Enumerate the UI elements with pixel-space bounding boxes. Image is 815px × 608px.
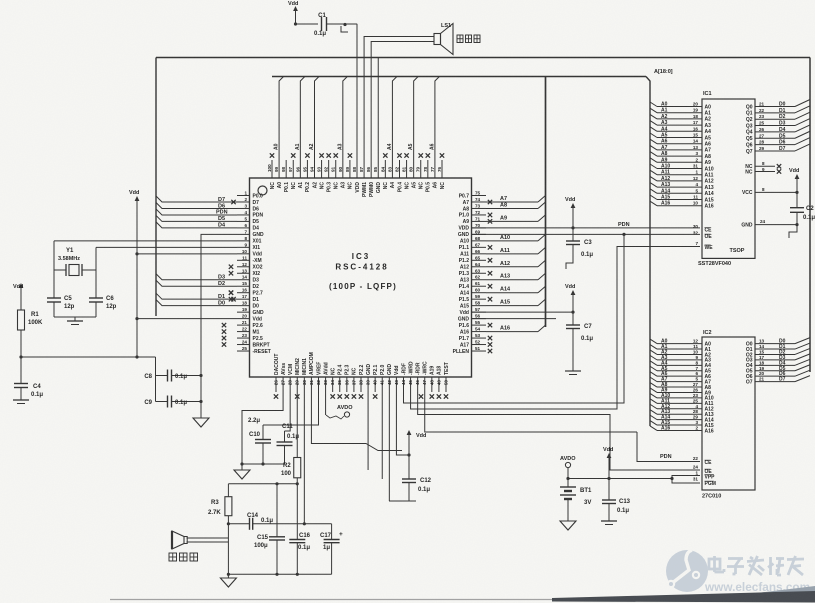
IC1 VCC pin	[742, 187, 799, 196]
wire GND pin56 row stub	[472, 318, 557, 320]
ground below BT1	[560, 521, 576, 530]
IC2 address pins A0-A16 with fan	[650, 339, 714, 435]
wire -RDR pin46 loop to IC2 OE	[418, 392, 700, 470]
resistor R3 2.7K	[208, 484, 232, 526]
wire C1 to VDD pin 88 net	[327, 23, 358, 26]
ground hook below C2	[789, 225, 797, 238]
wire C14 to C17/MICIN1	[253, 523, 332, 525]
capacitor C2 0.1u	[790, 192, 815, 224]
wire address-bus top horizontal A[18:0]	[272, 77, 650, 427]
IC3 bottom no-connect X marks	[274, 394, 448, 398]
wire P2.0 pin41 down	[381, 392, 383, 479]
label PDN (near IC1)	[618, 222, 630, 228]
power Vdd (left rail)	[129, 190, 139, 210]
net symbol AVDD at battery	[560, 456, 576, 468]
IC3 left pins 1-25 with labels	[237, 191, 271, 355]
wire Vdd pin43 to C12 node	[396, 392, 409, 455]
capacitor C11 0.1u	[277, 424, 300, 464]
watermark logo circle	[666, 550, 708, 592]
IC RSC-4128 U/IC3 body	[250, 178, 472, 377]
power Vdd above C3	[565, 197, 575, 228]
wire AMPCOM pin31 down-right jog	[311, 392, 402, 451]
wire Vdd rail to pin10	[137, 253, 237, 255]
X marks on D wires	[229, 200, 236, 302]
scan noise texture	[0, 0, 1, 1]
capacitor C3 0.1u	[566, 228, 593, 258]
wire data-bus right vertical	[809, 58, 811, 373]
power Vdd above C13	[603, 447, 613, 479]
wire -WRC pin47 loop to IC2 CE net	[425, 392, 637, 432]
IC2 VPP pin	[695, 471, 715, 481]
resistor R2 100	[281, 458, 301, 478]
scan shadow bottom edge	[110, 586, 815, 603]
power Vdd (top, to C1)	[288, 1, 298, 24]
wire GND pin85 up	[377, 58, 379, 161]
wire AVdd pin33 to AVDD symbol	[325, 392, 327, 415]
ground bar below C7	[565, 371, 581, 375]
ground bar below C12	[389, 500, 416, 502]
IC2 data pins O0-O7 to data bus	[746, 338, 810, 386]
power Vdd at IC1	[789, 168, 799, 192]
wire Vdd to C1	[294, 22, 318, 25]
wire OE net (IC3 pin69 row to IC1 OE)	[472, 233, 701, 236]
capacitor C14 0.1u	[247, 513, 273, 530]
ground bar below C13	[601, 521, 617, 525]
wire Vdd pin57 row to C7	[472, 311, 575, 314]
resistor R1 100K	[18, 310, 44, 330]
wire GND pin7 down-left	[201, 234, 237, 418]
IC3 name text	[329, 252, 397, 291]
wire MICIN2 pin29 down to R2	[296, 392, 298, 458]
wire PDN branch down to IC2 CE	[637, 432, 700, 462]
IC2 OE pin	[693, 465, 713, 476]
ground (mic, bottom)	[220, 574, 236, 587]
capacitor C5 12p	[47, 270, 75, 317]
wire mic coupling row	[228, 523, 249, 525]
wire mic node rail	[228, 482, 297, 485]
IC2 PGM pin	[693, 477, 716, 488]
capacitor C1 0.1u	[314, 13, 327, 37]
watermark text 电子发烧友 (glyph strokes)	[709, 556, 804, 575]
IC1 CE pin	[693, 224, 712, 234]
wires D7-D0 from data bus to IC3	[156, 196, 237, 306]
wire GND pin39 down	[367, 392, 369, 470]
IC1 address pins A0-A16 with fan	[650, 102, 714, 210]
watermark url text	[704, 580, 810, 594]
IC3 top pins 100-76 with labels	[267, 160, 446, 197]
label speaker 扬声器 (glyph strokes)	[457, 35, 480, 43]
crystal Y1 3.58MHz	[54, 241, 96, 276]
IC3 left no-connect X marks	[222, 265, 233, 347]
wire X01 pin8 to crystal	[54, 240, 237, 242]
wire PWM0 pin86 to speaker	[371, 42, 434, 161]
wire AVss pin27 to ground	[242, 392, 283, 464]
capacitor C15 100u	[254, 484, 285, 575]
speaker LS1	[434, 23, 453, 55]
wire data-bus top horizontal (net D[7:0])	[156, 57, 810, 59]
wire analog ground rail	[240, 462, 284, 465]
capacitor C13 0.1u	[602, 479, 631, 522]
IC2 CE pin	[693, 456, 712, 466]
capacitor C7 0.1u	[566, 312, 593, 371]
wire -WRD pin45 loop to IC1 WE	[411, 247, 700, 410]
ground bar below C4	[13, 400, 29, 404]
wire VREF pin32 to C10	[263, 392, 318, 425]
microphone MIC (传声器)	[172, 531, 187, 549]
IC3 bottom pins 26-50 with labels	[274, 352, 450, 392]
label microphone 传声器 (glyph strokes)	[169, 553, 198, 561]
wire Vdd node to IC2 VPP/PGM	[609, 476, 700, 484]
wire VCM pin28 to C11	[285, 392, 291, 431]
wire VDD pin88 up	[356, 24, 358, 160]
wire AVDD to battery	[566, 468, 569, 481]
IC 27C010 IC2 body	[702, 330, 755, 500]
capacitor C16 0.1u	[289, 484, 310, 575]
wire GND pin42 down	[388, 392, 390, 501]
power Vdd above C7	[565, 284, 575, 312]
wire R1 bottom node	[19, 330, 155, 359]
wire C8/C9 left vertical	[155, 357, 157, 402]
IC3 top no-connect X marks	[270, 153, 444, 157]
capacitor C8 0.1u	[144, 370, 201, 382]
wire battery node to C13/Vdd	[568, 477, 611, 480]
wire PWM1 pin87 to speaker	[364, 37, 434, 161]
wire -RDF pin44 loop to IC1 OE	[403, 234, 624, 403]
wire Vdd rail to pin20	[137, 318, 237, 320]
IC1 OE pin	[693, 230, 713, 240]
ground (analog, below rail)	[234, 464, 250, 479]
wire PDN pin4 from bus	[156, 209, 237, 216]
ground hook below C3	[566, 258, 573, 269]
net symbol AVDD (circle) near pin33	[326, 405, 353, 419]
IC1 GND pin	[741, 219, 798, 229]
capacitor C10 2.2u	[249, 425, 271, 466]
wires A7-A16 from IC3 to address bus	[486, 195, 546, 331]
ground stub right of C1	[341, 26, 348, 32]
capacitor C17 1u (polar)	[320, 524, 343, 575]
IC1 data pins Q0-Q7 to data bus	[746, 100, 810, 155]
label PDN (near IC2)	[660, 454, 672, 460]
IC SST28VF040 IC1 body	[698, 91, 755, 267]
IC3 right pins 75-51 with labels	[453, 191, 486, 355]
label C10 value 2.2u	[248, 418, 260, 424]
battery BT1 3V	[560, 479, 592, 522]
wire MICIN1 pin30 down to C14 net	[303, 392, 306, 525]
IC1 NC pins	[745, 161, 781, 176]
wire R2 to mic node	[296, 478, 299, 486]
capacitor C12 0.1u	[402, 455, 432, 501]
wire data-bus left vertical	[155, 58, 157, 317]
label net A[18:0]	[654, 69, 673, 75]
wire PDN net (IC3 pin70 row to IC1 CE)	[472, 226, 701, 229]
capacitor C4 0.1u	[14, 357, 43, 400]
wire mic ground rail	[227, 573, 332, 576]
wire crystal ground rail	[54, 316, 96, 318]
IC3 right no-connect X marks	[488, 200, 492, 353]
wire address bus vertical (right of IC3)	[545, 77, 547, 328]
wire Vdd rail vertical	[135, 210, 138, 357]
wire XI1 pin9 to crystal	[96, 246, 237, 248]
wires address A0-A6 risers to bus	[274, 77, 440, 161]
capacitor C9 0.1u	[144, 396, 201, 408]
power Vdd above C12	[407, 430, 427, 457]
ground below C8/C9	[193, 374, 209, 427]
power Vdd above R1	[13, 283, 23, 310]
wire mic to network	[187, 524, 229, 575]
capacitor C6 12p	[89, 270, 117, 317]
IC1 WE pin	[695, 241, 713, 251]
ground (crystal)	[67, 317, 83, 325]
